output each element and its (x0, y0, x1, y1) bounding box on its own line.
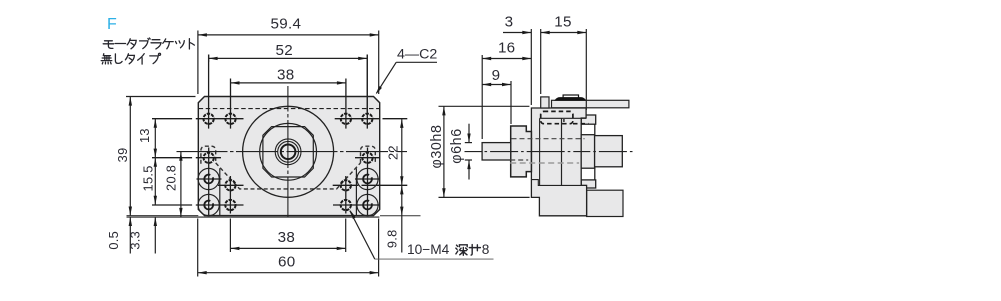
dim 38 top (231, 82, 346, 84)
dim 15.5 (154, 158, 156, 205)
hole top row 1 (203, 114, 213, 124)
boss slot left vertical (219, 168, 221, 215)
svg-text:4—C2: 4—C2 (397, 47, 437, 63)
side view flange face segments (594, 124, 596, 135)
counterbore right row1 outer (357, 168, 378, 189)
dim 9 side (482, 81, 511, 124)
svg-text:39: 39 (115, 147, 130, 162)
svg-text:16: 16 (498, 40, 516, 57)
kana text line 1: motor bracket (103, 38, 194, 49)
boss slot right vertical (355, 168, 357, 215)
counterbore left row1 inner (204, 175, 213, 184)
side view top rail (552, 100, 629, 108)
hole mid right (362, 153, 372, 163)
counterbore right row2 outer (357, 194, 378, 215)
side view: phi30 dim (439, 106, 530, 197)
dim 20.8 (180, 152, 182, 217)
side view hidden cavity dashed (541, 111, 573, 123)
svg-text:38: 38 (278, 229, 296, 246)
side view centerline (465, 151, 634, 153)
side view flange tab top (581, 115, 596, 124)
hidden dashed slot capsule right (361, 146, 376, 164)
side view right shaft large step (581, 135, 594, 169)
plate bottom extension line (right) (380, 215, 421, 217)
hidden gray dashed (510, 162, 579, 164)
center hole bold (281, 145, 296, 160)
svg-text:10−M4: 10−M4 (407, 242, 450, 257)
side view body inner lines (540, 117, 587, 119)
svg-text:60: 60 (278, 254, 296, 271)
kana text line 2: nashi taipu (101, 53, 160, 64)
dim 3 side (503, 29, 586, 110)
counterbore right row1 inner (363, 175, 372, 184)
svg-text:59.4: 59.4 (271, 15, 302, 32)
dim 38 bottom (230, 219, 345, 253)
dim 60 (198, 219, 379, 277)
leader 4-C2 (396, 61, 437, 63)
hole bottom inner left (225, 200, 235, 210)
center nut octagon (263, 127, 313, 177)
counterbore left row2 outer (198, 194, 219, 215)
svg-text:φ30h8: φ30h8 (429, 124, 445, 168)
crosshair verticals top holes (208, 55, 210, 129)
body bottom hidden edge (127, 216, 380, 218)
dim 52 (209, 55, 368, 113)
circle middle (260, 123, 317, 180)
hole mid left (204, 153, 214, 163)
counterbore left row1 outer (198, 168, 219, 189)
svg-text:F: F (107, 16, 117, 33)
side view boss (511, 126, 532, 177)
svg-text:15.5: 15.5 (141, 165, 156, 191)
center ring outer (275, 139, 301, 165)
svg-text:52: 52 (276, 42, 294, 59)
counterbore right row2 inner (363, 201, 372, 210)
side view right shaft (595, 136, 623, 167)
dim 0.5 (129, 217, 131, 254)
hidden cavity inner hook dashed (563, 119, 565, 124)
svg-text:3: 3 (505, 14, 514, 31)
center ring inner (278, 141, 299, 162)
svg-text:9: 9 (492, 67, 501, 84)
plate bottom extension line (left) (127, 215, 199, 217)
hidden dashed slot capsule left (201, 146, 216, 164)
side view flange tab bottom (581, 180, 596, 188)
dim 59.4 (198, 31, 379, 95)
hole inner left (225, 180, 235, 190)
svg-text:3.3: 3.3 (128, 231, 143, 250)
screw cap top (563, 95, 578, 98)
horizontal centerline (177, 151, 408, 153)
dim 16 side (482, 55, 531, 139)
hidden shaft dashed bottom (510, 159, 528, 161)
svg-text:13: 13 (137, 128, 152, 143)
hole top row 4 (362, 114, 372, 124)
plate (front view body) (198, 97, 379, 216)
svg-text:9.8: 9.8 (385, 229, 400, 248)
dim 9.8 (401, 185, 403, 252)
vertical centerline (287, 86, 289, 219)
crosshair horizontal row 204.8 (152, 204, 192, 206)
hidden dashed line under cavity (573, 123, 589, 125)
svg-text:38: 38 (277, 67, 295, 84)
hidden bore dashed top (512, 138, 585, 140)
side view: phi6 dim (465, 124, 472, 180)
leader 10-M4 (350, 211, 375, 260)
hole top row 3 (341, 114, 351, 124)
counterbore left row2 inner (204, 201, 213, 210)
dim 3.3 (154, 217, 156, 254)
circle phi30 outer (243, 106, 334, 197)
svg-text:20.8: 20.8 (163, 165, 178, 191)
crosshair horizontal row 185.3 (218, 184, 244, 186)
side view shaft phi6 (482, 143, 511, 160)
crosshair horizontal row 157.8 (152, 157, 192, 159)
hole inner right (341, 180, 351, 190)
side view bottom rail (587, 190, 623, 216)
crosshair horizontal row 179 (197, 178, 222, 180)
hole top row 2 (225, 114, 235, 124)
screw cap base (555, 98, 585, 101)
crosshair horizontal top row (152, 118, 192, 120)
kana fukasa (depth) (456, 245, 481, 256)
dim 39 (126, 97, 196, 216)
dim 13 (154, 119, 156, 158)
dim 22 (401, 119, 403, 186)
svg-text:15: 15 (554, 14, 572, 31)
side view top tab (541, 97, 549, 108)
hidden dashed body contour (216, 163, 361, 189)
hidden edge dashed line top (199, 108, 380, 110)
side view body (531, 108, 586, 216)
svg-text:22: 22 (385, 145, 400, 160)
svg-text:8: 8 (482, 242, 490, 257)
hole bottom inner right (341, 200, 351, 210)
svg-text:φ6h6: φ6h6 (449, 128, 465, 164)
crosshair verticals bottom clusters (208, 148, 210, 216)
svg-text:0.5: 0.5 (106, 231, 121, 250)
